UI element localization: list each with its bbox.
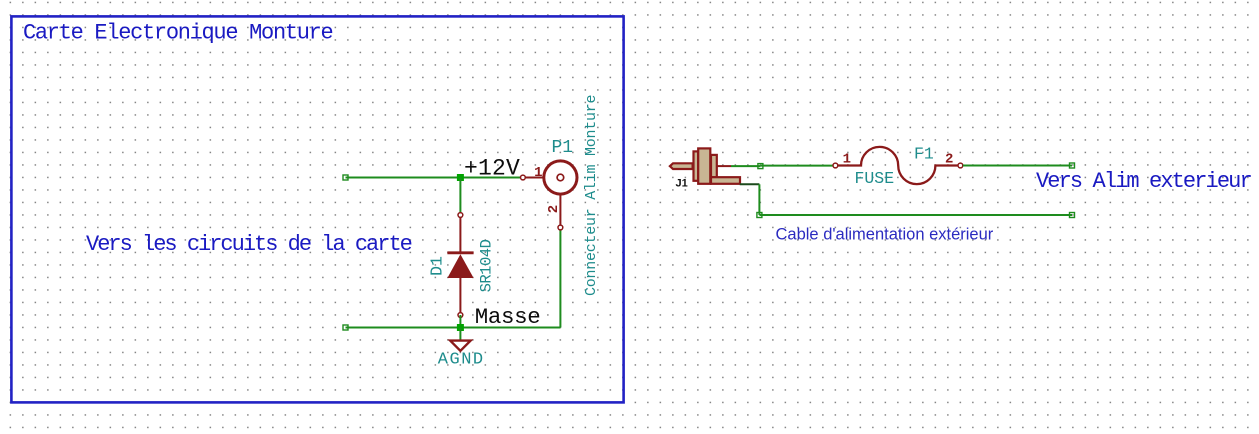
svg-text:2: 2 [945,152,953,168]
connector P1 [521,161,578,230]
wire fuse pin2 to right [963,165,1072,167]
wire Masse horizontal [346,327,561,329]
wire Masse to P1 pin2 vertical [559,228,561,328]
svg-text:Cable d'alimentation extérieur: Cable d'alimentation extérieur [776,226,994,244]
svg-text:J1: J1 [676,178,688,190]
wire diode anode to Masse wire [459,315,461,328]
svg-text:Vers Alim exterieur: Vers Alim exterieur [1036,169,1251,194]
svg-text:P1: P1 [552,138,574,158]
svg-text:1: 1 [843,152,851,168]
svg-text:D1: D1 [427,256,446,276]
wire end square mid [758,164,763,169]
junction on Masse node [457,324,464,331]
svg-text:Connecteur Alim Monture: Connecteur Alim Monture [583,94,600,296]
wire J1 pin1 to fuse [731,165,760,167]
sheet border box [11,16,623,402]
svg-text:2: 2 [546,205,562,213]
wire end square top right [1070,163,1075,168]
svg-text:SR104D: SR104D [478,239,496,292]
wire end square left bottom [343,325,348,330]
svg-text:1: 1 [534,165,542,181]
wire bottom horizontal [759,214,1072,216]
wire end square corner [757,213,762,218]
wire J1 sleeve dark segment [740,183,760,185]
svg-text:Masse: Masse [475,304,541,330]
svg-text:Vers les circuits de la carte: Vers les circuits de la carte [86,232,412,257]
svg-text:Carte Electronique Monture: Carte Electronique Monture [23,21,333,46]
wire from Masse junction to AGND [459,328,461,341]
wire down right of J1 [758,184,760,215]
wire end square bottom right [1070,213,1075,218]
svg-text:+12V: +12V [464,156,520,182]
svg-text:FUSE: FUSE [855,169,895,188]
wire to fuse pin1 [760,165,833,167]
svg-text:F1: F1 [914,145,934,164]
wire from +12V junction down to diode [459,178,461,216]
wire +12V horizontal [346,177,521,179]
diode D1 [447,213,473,318]
power symbol AGND [450,341,470,351]
fuse F1 [833,147,963,184]
connector J1 barrel jack [670,148,740,183]
wire end square left top [343,175,348,180]
junction on +12V node [457,174,464,181]
J1 pin 1 line [717,165,731,167]
svg-text:AGND: AGND [438,350,485,369]
